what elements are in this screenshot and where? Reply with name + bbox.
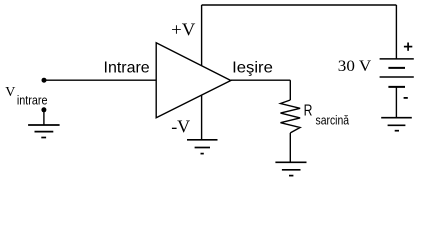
svg-text:R: R [304, 103, 313, 120]
wire resistor to ground [289, 133, 291, 162]
svg-text:V: V [5, 85, 15, 100]
ground (below battery) [381, 118, 412, 131]
ground dot (left) [41, 107, 46, 112]
label R_sarcina [304, 103, 350, 128]
svg-text:Intrare: Intrare [104, 60, 150, 77]
label + terminal [404, 43, 412, 51]
wire ground lead (left) [43, 110, 45, 125]
wire battery bottom lead [395, 87, 397, 118]
wire output horizontal [231, 79, 290, 81]
wire input horizontal [44, 79, 156, 81]
svg-text:Ieşire: Ieşire [232, 59, 273, 76]
wire +V supply [201, 5, 203, 66]
wire top rail [202, 4, 397, 6]
wire -V supply [201, 95, 203, 140]
battery B1 plates [380, 59, 414, 87]
svg-text:30 V: 30 V [338, 58, 372, 75]
ground (below resistor) [275, 162, 306, 175]
svg-text:intrare: intrare [17, 93, 48, 108]
ground (left) [28, 125, 59, 138]
node input dot [42, 78, 47, 83]
op-amp U1 triangle [156, 43, 231, 118]
ground (middle, -V) [187, 140, 218, 154]
svg-text:+V: +V [171, 20, 195, 40]
label V_intrare [5, 85, 47, 108]
svg-text:-V: -V [171, 117, 190, 137]
wire output vertical drop [289, 80, 291, 100]
wire battery top lead [395, 5, 397, 59]
resistor R_sarcina zigzag [281, 100, 301, 133]
label - terminal [404, 97, 408, 99]
svg-text:sarcină: sarcină [316, 113, 350, 128]
